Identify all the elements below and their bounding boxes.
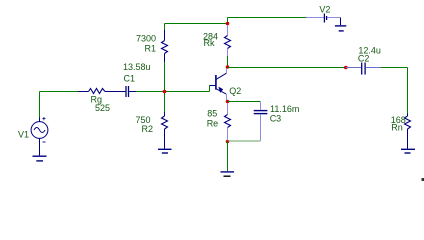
resistor Re bbox=[225, 103, 231, 139]
svg-text:C3: C3 bbox=[270, 113, 282, 123]
ground (V1) bbox=[33, 156, 47, 161]
wire bbox=[164, 62, 166, 112]
wire bbox=[227, 56, 229, 68]
collector lead bbox=[226, 69, 228, 74]
battery V2 bbox=[306, 14, 341, 23]
wire to Rn bbox=[381, 67, 408, 69]
wire C3 bottom bbox=[228, 140, 261, 142]
node dot emitter bottom bbox=[226, 140, 230, 144]
ground (emitter) bbox=[221, 172, 235, 176]
resistor R1 bbox=[162, 30, 168, 62]
wire emitter right bbox=[228, 101, 261, 103]
svg-text:13.58u: 13.58u bbox=[123, 62, 151, 72]
svg-text:V2: V2 bbox=[319, 4, 330, 14]
wire step bbox=[227, 18, 229, 24]
wire bbox=[407, 68, 409, 114]
wire bbox=[136, 91, 210, 93]
resistor Rg bbox=[78, 89, 125, 94]
ground (Rn) bbox=[401, 149, 415, 153]
wire top bbox=[165, 23, 228, 25]
wire bbox=[164, 24, 166, 31]
emitter arrow (points to bar) bbox=[218, 87, 223, 93]
corner artifact bbox=[422, 178, 424, 181]
node dot emitter bbox=[226, 100, 230, 104]
resistor R2 bbox=[162, 112, 168, 149]
svg-text:R2: R2 bbox=[142, 124, 154, 134]
ground (R2) bbox=[158, 149, 172, 153]
emitter lead bbox=[226, 94, 228, 100]
svg-text:Re: Re bbox=[207, 118, 219, 128]
wire bbox=[40, 91, 79, 93]
voltage source V1 bbox=[31, 117, 48, 155]
svg-text:85: 85 bbox=[207, 109, 217, 119]
svg-text:Rk: Rk bbox=[204, 38, 215, 48]
svg-text:R1: R1 bbox=[145, 44, 157, 54]
resistor Rn bbox=[405, 114, 411, 149]
wire bbox=[228, 17, 307, 19]
svg-text:Rn: Rn bbox=[391, 122, 403, 132]
capacitor C1 bbox=[126, 86, 136, 97]
svg-text:C1: C1 bbox=[124, 74, 136, 84]
node dot C2 left bbox=[344, 66, 348, 70]
svg-text:7300: 7300 bbox=[136, 33, 156, 43]
svg-text:C2: C2 bbox=[358, 54, 370, 64]
node dot collector bbox=[226, 65, 230, 69]
transistor Q2 bbox=[210, 73, 227, 94]
node base jog bbox=[209, 86, 211, 92]
wire collector net bbox=[228, 67, 346, 69]
capacitor C2 bbox=[346, 63, 381, 75]
resistor Rk bbox=[225, 25, 231, 56]
capacitor C3 bbox=[254, 102, 268, 141]
node A junction dot bbox=[163, 90, 167, 94]
wire bbox=[39, 92, 41, 118]
wire to ground bbox=[227, 142, 229, 172]
node dot Rk top bbox=[226, 22, 230, 26]
svg-text:V1: V1 bbox=[18, 129, 29, 139]
svg-text:525: 525 bbox=[95, 103, 110, 113]
ground (V2) bbox=[335, 18, 346, 31]
svg-text:Q2: Q2 bbox=[229, 86, 241, 96]
